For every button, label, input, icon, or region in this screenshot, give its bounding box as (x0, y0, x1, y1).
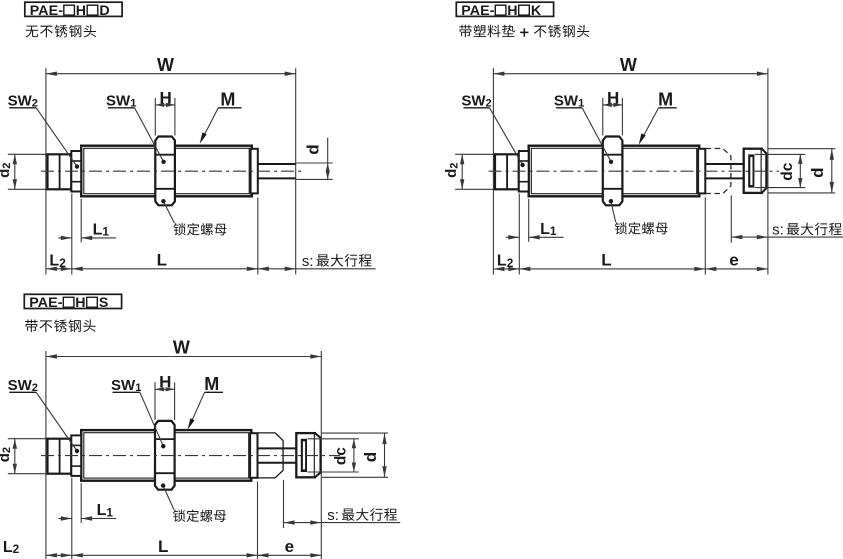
svg-text:W: W (157, 55, 174, 75)
label d2 (PAE-K) (443, 163, 460, 178)
svg-text:K: K (531, 3, 542, 19)
subtitle 3: with stainless steel head (25, 319, 95, 332)
label SW2 (PAE-S) (8, 377, 38, 394)
leader lock nut (PAE-D) (161, 199, 174, 223)
dimension L1 line (PAE-D) (58, 236, 116, 240)
svg-text:H: H (159, 88, 171, 107)
dimension H line (PAE-S) (155, 387, 175, 391)
leader SW1 (PAE-D) (135, 108, 166, 164)
dimension d extension lines (PAE-K) (768, 149, 836, 193)
label SW1 (PAE-K) (554, 93, 584, 110)
svg-text:s:: s: (772, 222, 784, 239)
label L1 (PAE-D) (93, 222, 110, 239)
lock nut (PAE-K) (603, 137, 623, 206)
dimension W line (PAE-K) (493, 72, 768, 76)
main threaded body M (PAE-S) (81, 430, 251, 481)
rear cap d2 (PAE-D) (48, 154, 72, 189)
dimension H extension lines (PAE-K) (603, 98, 623, 136)
dimension L1 extension line B (PAE-S) (80, 483, 82, 523)
svg-text:H: H (76, 3, 86, 19)
dimension d extension lines (PAE-S) (322, 433, 388, 477)
label W (PAE-S) (173, 338, 190, 358)
leader M with arrowhead (PAE-K) (639, 108, 659, 145)
svg-text:L: L (157, 251, 167, 270)
title box PAE-[]H[]K (PAE-K) (456, 2, 553, 19)
leader M with arrowhead (PAE-D) (200, 108, 219, 144)
dimension H line (PAE-K) (603, 103, 623, 107)
label H (PAE-K) (607, 88, 619, 107)
svg-text:H: H (607, 88, 619, 107)
rear cap d2 (PAE-K) (495, 154, 519, 189)
label L2 (PAE-S) (3, 539, 20, 556)
svg-text:dc: dc (779, 162, 796, 180)
label lock nut 锁定螺母 (PAE-D) (173, 223, 226, 235)
label L1 (PAE-S) (97, 502, 114, 519)
svg-text:d: d (808, 168, 827, 178)
rear hex SW2 (PAE-K) (519, 151, 529, 192)
dimension W extension line left (PAE-K) (492, 68, 494, 274)
label M (PAE-K) (658, 90, 677, 110)
dimension dc extension lines (PAE-S) (308, 439, 359, 472)
dimension L1 extension line A (PAE-K) (518, 194, 520, 275)
svg-text:PAE-: PAE- (30, 3, 63, 19)
main threaded body M (PAE-D) (81, 146, 252, 197)
main threaded body M (PAE-K) (529, 146, 700, 197)
svg-text:L1: L1 (540, 221, 557, 238)
leader M with arrowhead (PAE-S) (188, 392, 205, 429)
svg-text:L: L (601, 251, 611, 270)
svg-text:L2: L2 (49, 253, 66, 270)
svg-text:D: D (99, 3, 109, 19)
front end ring (PAE-S) (250, 433, 257, 478)
plastic pad dashed outline (PAE-K) (706, 149, 731, 194)
dimension W extension line left (PAE-D) (45, 68, 47, 274)
rear cap d2 (PAE-S) (48, 439, 72, 474)
label L2 (PAE-D) (49, 253, 66, 270)
label lock nut 锁定螺母 (PAE-K) (615, 222, 668, 234)
label d2 (PAE-D) (0, 163, 13, 178)
svg-text:e: e (729, 251, 738, 270)
dimension L1 extension line A (PAE-S) (71, 478, 73, 559)
dimension W extension line left (PAE-S) (45, 351, 47, 559)
label e (PAE-S) (285, 537, 294, 556)
dimension s extension line (PAE-S) (283, 480, 285, 528)
dimension L line (PAE-K) (519, 267, 705, 271)
front end ring (PAE-K) (698, 149, 705, 194)
svg-text:W: W (620, 55, 637, 75)
leader SW2 (PAE-D) (36, 108, 79, 169)
title box PAE-[]H[]D (PAE-D) (25, 2, 122, 19)
label d (PAE-D) (304, 144, 323, 154)
svg-text:s:: s: (302, 253, 314, 270)
title box PAE-[]H[]S (PAE-S) (24, 294, 121, 311)
svg-text:M: M (220, 90, 235, 110)
label dc (PAE-K) (779, 162, 796, 180)
dimension d2 line (PAE-K) (460, 154, 464, 189)
svg-text:L2: L2 (3, 539, 20, 556)
label L (PAE-K) (601, 251, 611, 270)
dimension s line (PAE-K) (731, 235, 843, 239)
dimension s line (PAE-D) (258, 267, 376, 271)
svg-text:PAE-: PAE- (461, 3, 494, 19)
dimension e line (PAE-S) (258, 553, 322, 557)
label L2 (PAE-K) (497, 253, 514, 270)
label SW2 (PAE-D) (8, 93, 38, 110)
rear hex SW2 (PAE-S) (71, 435, 81, 476)
dimension L2 line (PAE-S) (46, 553, 72, 557)
label SW1 (PAE-D) (106, 93, 136, 110)
label M (PAE-S) (204, 374, 223, 394)
svg-text:d: d (304, 144, 323, 154)
label d (PAE-K) (808, 168, 827, 178)
dimension H extension lines (PAE-D) (155, 98, 175, 136)
label d2 (PAE-S) (0, 447, 13, 462)
stainless steel head (PAE-K) (744, 149, 767, 193)
extension line at stroke start (PAE-S) (257, 482, 259, 559)
centerline (PAE-D) (41, 170, 304, 172)
label s: max stroke (PAE-S) (327, 507, 397, 524)
piston rod (PAE-S) (258, 448, 297, 462)
piston rod (PAE-K) (705, 164, 743, 178)
dimension L1 extension line B (PAE-K) (528, 199, 530, 242)
label H (PAE-D) (159, 88, 171, 107)
dimension H line (PAE-D) (155, 103, 175, 107)
dimension dc extension lines (PAE-K) (755, 154, 805, 187)
subtitle 1: without stainless steel head (26, 25, 97, 38)
leader lock nut (PAE-K) (609, 199, 616, 222)
label L (PAE-S) (158, 537, 168, 556)
lock nut (PAE-D) (155, 137, 175, 206)
head slot (PAE-K) (748, 154, 754, 187)
dimension L1 extension line B (PAE-D) (80, 199, 82, 243)
label e (PAE-K) (729, 251, 738, 270)
stainless steel head (PAE-S) (296, 433, 320, 477)
svg-text:H: H (507, 3, 517, 19)
dimension L2 line (PAE-K) (493, 267, 519, 271)
svg-text:M: M (204, 374, 219, 394)
dimension d2 extension lines (PAE-K) (455, 154, 498, 189)
dimension L line (PAE-D) (72, 267, 258, 271)
dimension d2 extension lines (PAE-D) (8, 154, 51, 189)
extension line at stroke start (PAE-K) (704, 197, 706, 274)
subtitle 2: with plastic pad + stainless steel head (459, 25, 589, 38)
dimension e line (PAE-K) (705, 267, 768, 271)
svg-text:L1: L1 (93, 222, 110, 239)
dimension L1 line (PAE-S) (58, 516, 116, 520)
dimension L1 extension line A (PAE-D) (71, 194, 73, 275)
centerline (PAE-S) (41, 455, 340, 457)
dimension W extension line right (PAE-K) (767, 68, 769, 274)
svg-text:d: d (361, 452, 380, 462)
label H (PAE-S) (159, 373, 171, 392)
label d (PAE-S) (361, 452, 380, 462)
label L1 (PAE-K) (540, 221, 557, 238)
svg-text:S: S (99, 295, 108, 311)
label s: max stroke (PAE-D) (302, 253, 372, 270)
lock nut (PAE-S) (155, 421, 175, 490)
svg-text:d2: d2 (0, 163, 13, 178)
leader SW2 (PAE-K) (490, 108, 525, 167)
svg-text:d2: d2 (0, 447, 13, 462)
dimension dc line (PAE-S) (352, 439, 356, 472)
dimension s line (PAE-S) (284, 520, 401, 524)
svg-text:H: H (159, 373, 171, 392)
extension line at stroke start (PAE-D) (257, 197, 259, 274)
svg-text:M: M (658, 90, 673, 110)
dimension d2 extension lines (PAE-S) (8, 439, 51, 474)
svg-text:e: e (285, 537, 294, 556)
rear hex SW2 (PAE-D) (71, 151, 81, 192)
dimension d line (PAE-D) (326, 138, 330, 180)
dimension d line (PAE-K) (830, 149, 834, 193)
dimension W extension line right (PAE-S) (320, 351, 322, 559)
svg-text:PAE-: PAE- (29, 295, 62, 311)
svg-text:s:: s: (327, 507, 339, 524)
leader SW2 (PAE-S) (36, 392, 79, 453)
dimension W extension line right (PAE-D) (295, 68, 297, 274)
dimension d line (PAE-S) (382, 433, 386, 477)
svg-text:L: L (158, 537, 168, 556)
front end ring (PAE-D) (251, 149, 258, 194)
dimension L line (PAE-S) (72, 553, 258, 557)
label SW2 (PAE-K) (461, 93, 491, 110)
label M (PAE-D) (218, 90, 241, 110)
svg-text:W: W (173, 338, 190, 358)
dimension W line (PAE-D) (46, 72, 296, 76)
piston rod (PAE-D) (258, 164, 296, 178)
dimension d extension lines (PAE-D) (296, 163, 333, 179)
dimension L2 line (PAE-D) (46, 267, 72, 271)
leader SW1 (PAE-S) (140, 392, 166, 448)
dimension L1 line (PAE-K) (506, 235, 564, 239)
label lock nut 锁定螺母 (PAE-S) (173, 509, 226, 521)
label SW1 (PAE-S) (111, 377, 141, 394)
dimension d2 line (PAE-S) (13, 439, 17, 474)
label W (PAE-D) (157, 55, 174, 75)
leader lock nut (PAE-S) (161, 483, 174, 509)
label dc (PAE-S) (332, 447, 349, 465)
svg-text:L1: L1 (97, 502, 114, 519)
dimension s extension line (PAE-K) (730, 196, 732, 243)
dimension H extension lines (PAE-S) (155, 382, 175, 420)
head slot (PAE-S) (301, 439, 307, 472)
label s: max stroke (PAE-K) (772, 222, 842, 239)
dimension d2 line (PAE-D) (13, 154, 17, 189)
label W (PAE-K) (620, 55, 637, 75)
pad outline (PAE-S) (258, 433, 283, 478)
leader SW1 (PAE-K) (582, 108, 613, 164)
svg-text:L2: L2 (497, 253, 514, 270)
svg-text:H: H (75, 295, 85, 311)
dimension dc line (PAE-K) (798, 154, 802, 187)
label L (PAE-D) (157, 251, 167, 270)
centerline (PAE-K) (489, 170, 780, 172)
dimension W line (PAE-S) (46, 354, 321, 358)
